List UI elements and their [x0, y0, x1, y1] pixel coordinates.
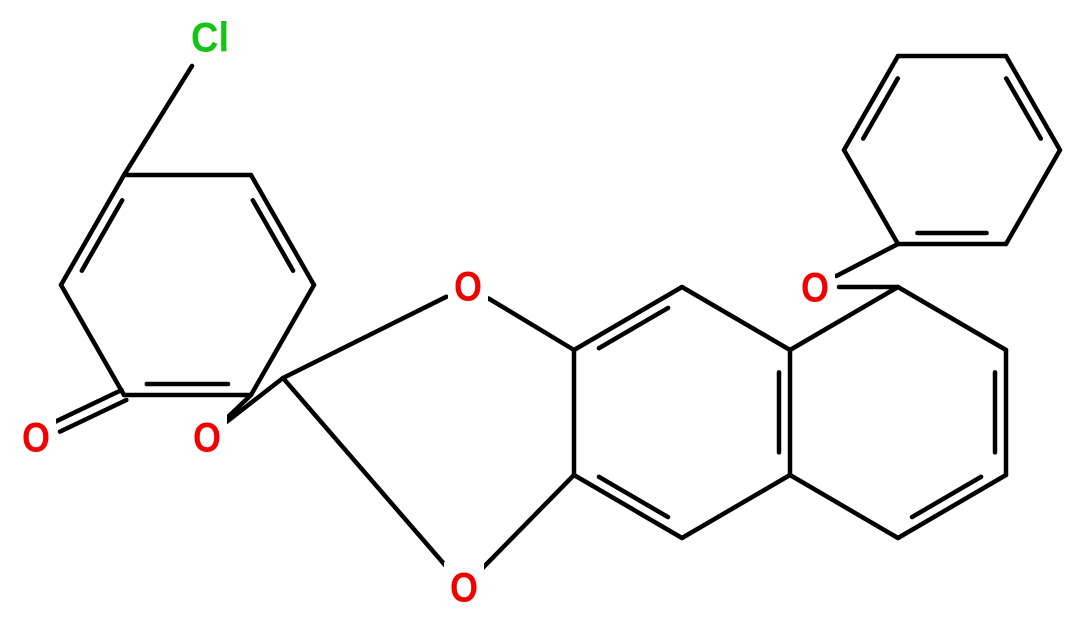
ring A aromatic inner bond top-right — [253, 200, 293, 270]
ring B aromatic inner bond top-left — [599, 308, 668, 348]
bond CH linker to ring O — [283, 297, 447, 378]
benzene ring D (phenoxy) — [844, 56, 1060, 244]
svg-text:O: O — [22, 414, 50, 461]
atom label O (lower ether) — [444, 562, 484, 612]
atom label O (ring ether) — [448, 261, 488, 311]
ring D aromatic inner bond upper-left — [863, 78, 898, 138]
ring D aromatic inner bond bottom — [917, 231, 986, 236]
svg-text:O: O — [801, 264, 829, 311]
bond C-O ester — [224, 395, 251, 420]
svg-text:O: O — [450, 564, 478, 611]
ring B aromatic inner bond bottom-left — [599, 477, 668, 517]
svg-text:O: O — [193, 414, 221, 461]
C=O double bond to carbonyl O — [55, 390, 126, 432]
benzene ring B (central) — [574, 287, 790, 538]
bond C-Cl — [124, 66, 192, 175]
ring C aromatic inner bond right — [993, 372, 998, 452]
atom label O (aryl ether) — [795, 262, 835, 312]
atom label O (carbonyl) — [16, 412, 56, 462]
atom label Cl — [182, 12, 238, 62]
ring A aromatic inner bond bottom — [147, 382, 228, 387]
ring B aromatic inner bond right — [777, 372, 782, 452]
atom label O (ester) — [187, 412, 227, 462]
svg-text:O: O — [454, 263, 482, 310]
bond ether O to ring C — [839, 285, 898, 290]
ring C aromatic inner bond bottom — [912, 477, 981, 517]
benzene ring C (fused naphthalene) — [790, 287, 1006, 538]
bond ether O to phenyl ring D — [836, 244, 898, 276]
bond lower O to ring B — [481, 475, 574, 570]
benzene ring A (chlorophenyl) — [61, 175, 314, 395]
svg-text:Cl: Cl — [191, 14, 229, 61]
bond ester O to CH linker — [226, 378, 283, 422]
ring D aromatic inner bond right — [1006, 78, 1041, 138]
ring A aromatic inner bond upper-left — [82, 200, 122, 270]
bond ring O to benzo ring — [489, 298, 575, 350]
bond CH linker to lower O — [283, 378, 448, 569]
